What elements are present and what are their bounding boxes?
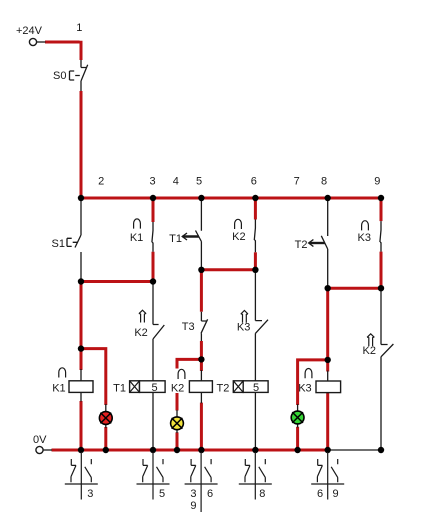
wire 0V bus live part: [52, 449, 328, 452]
junction 0V bus T2 coil: [252, 447, 258, 453]
white mask under K2 coil label (wire passes behind): [171, 369, 188, 394]
energize arrow K2 contact rung3: [139, 310, 146, 322]
wire branch to red lamp H1: [81, 347, 106, 405]
wire top bus node 2-9: [81, 197, 381, 200]
svg-text:6: 6: [207, 488, 213, 500]
junction 0V bus lamp H3: [294, 447, 300, 453]
junction rung5/6 y270 right: [252, 267, 258, 273]
T1 coil pins: [152, 380, 154, 450]
K1 coil pins: [80, 369, 82, 402]
terminal +24V: [29, 38, 36, 45]
svg-text:7: 7: [294, 176, 300, 188]
indicator lamp H1 red: [99, 412, 112, 425]
svg-text:T1: T1: [113, 383, 126, 395]
wire T3 bottom to yellow lamp branch node: [200, 341, 203, 359]
pushbutton S0 (NC, closed): [81, 60, 88, 91]
svg-text:2: 2: [98, 176, 104, 188]
wire bus to K1 contact top: [152, 199, 155, 222]
svg-text:K2: K2: [232, 231, 245, 243]
junction node 5 on top bus: [198, 195, 204, 201]
svg-text:K3: K3: [298, 383, 311, 395]
terminal 0V lead: [43, 449, 52, 451]
wire green lamp bottom to 0V bus: [296, 427, 299, 450]
coil designator arc K3 contact rung9: [362, 221, 369, 231]
terminal +24V lead: [37, 41, 46, 43]
svg-text:K1: K1: [52, 383, 65, 395]
junction node 6 on top bus: [252, 195, 258, 201]
contact mirror T2: [239, 452, 272, 500]
relay contact K2 (NO, closed) rung 6: [254, 220, 255, 253]
wire K3 contact bottom to node y288: [380, 252, 383, 289]
svg-text:T2: T2: [295, 239, 308, 251]
relay contact K3 (NO, closed) rung 9: [380, 221, 381, 252]
svg-text:K3: K3: [358, 232, 371, 244]
terminal 0V: [36, 446, 43, 453]
wire bus to K2 contact top: [254, 199, 257, 220]
junction node 9 on top bus: [378, 195, 384, 201]
contact mirror K3: [311, 452, 344, 500]
wire T1 contact bottom node to T3 contact top: [200, 270, 203, 312]
svg-text:+24V: +24V: [16, 25, 43, 37]
coil designator arc K2 contact rung6: [235, 219, 242, 229]
svg-text:9: 9: [190, 500, 196, 512]
timer contact T1 (NO, open, on-delay) rung 5: [196, 199, 202, 270]
svg-text:S0: S0: [53, 70, 66, 82]
wire branch to yellow lamp H2: [176, 359, 202, 410]
lamp H2 pins: [176, 410, 178, 433]
coil K2: [189, 381, 212, 393]
T2 arrow: [309, 242, 325, 244]
svg-text:6: 6: [251, 176, 257, 188]
energize arrow K2 contact rung9: [367, 334, 374, 346]
junction 0V bus lamp H2: [174, 447, 180, 453]
wire horizontal rung T1 column to K2 contact column at y270: [201, 268, 255, 271]
junction lamp H2 branch: [198, 356, 204, 362]
timer contact T2 (NO, open, on-delay) rung 8: [321, 199, 327, 288]
relay contact K2 (NC, open) rung 9: [381, 288, 393, 450]
contact mirror T1: [137, 452, 170, 500]
svg-text:3: 3: [190, 488, 196, 500]
svg-text:5: 5: [253, 382, 259, 394]
relay contact K3 (NC, open) rung 6: [255, 270, 268, 381]
junction rung5/6 y270 left: [198, 267, 204, 273]
pushbutton S1 (NO, open): [75, 199, 81, 282]
wire horizontal rung S1 column to K1 column at y281: [81, 280, 153, 283]
svg-text:3: 3: [150, 176, 156, 188]
junction 0V bus T1 coil: [150, 447, 156, 453]
svg-text:K2: K2: [171, 383, 184, 395]
svg-text:K3: K3: [237, 322, 250, 334]
coil K1: [69, 381, 93, 393]
wire K2 coil bottom to 0V bus: [200, 403, 203, 450]
svg-text:6: 6: [317, 488, 323, 500]
svg-text:T3: T3: [182, 321, 195, 333]
wire node to K2 coil top: [200, 359, 203, 371]
junction node 3 on top bus: [150, 195, 156, 201]
timer coil T2 body: [243, 381, 268, 393]
K3 coil pins: [327, 371, 329, 394]
junction rung2/3 y281 left: [78, 278, 84, 284]
relay contact K2 (NC, open) rung 3: [153, 282, 164, 381]
timer coil T2 value box with X: [233, 381, 243, 393]
junction lamp H3 branch: [325, 357, 331, 363]
coil designator arc K2 coil: [178, 369, 185, 379]
lamp H3 pins: [297, 404, 299, 428]
svg-text:5: 5: [196, 176, 202, 188]
timer contact T3 (NC, closed) rung 5: [201, 312, 208, 341]
wire bus to K3 contact top: [380, 199, 383, 221]
wire K1 coil bottom to 0V bus: [80, 401, 83, 450]
svg-text:8: 8: [321, 176, 327, 188]
junction rung8/9 y288 right: [378, 285, 384, 291]
junction 0V bus lamp H1: [103, 447, 109, 453]
svg-text:9: 9: [332, 488, 338, 500]
coil K3: [316, 381, 341, 393]
junction lamp H1 branch: [78, 345, 84, 351]
svg-text:S1: S1: [52, 238, 65, 250]
svg-text:T1: T1: [169, 233, 182, 245]
wire red lamp bottom to 0V bus: [104, 427, 107, 450]
wire T2 contact bottom node down to K3 coil branch node: [326, 288, 329, 360]
contact mirror K1: [65, 452, 98, 500]
wire K2 contact bottom to node y270: [254, 252, 257, 269]
wire S1 column down to lamp branch node: [80, 282, 83, 349]
timer coil T1 value box with X: [130, 381, 140, 393]
svg-text:9: 9: [374, 176, 380, 188]
wire horizontal rung T2 column to K3 contact column at y288: [328, 287, 381, 290]
T2 coil pins: [254, 380, 256, 450]
junction node 2 on top bus: [78, 195, 84, 201]
svg-text:5: 5: [151, 382, 157, 394]
timer coil T1 body: [140, 381, 166, 393]
svg-text:T2: T2: [217, 383, 230, 395]
K2 coil pins: [200, 370, 202, 403]
coil designator arc K1 coil: [59, 368, 66, 378]
junction 0V bus K2 coil: [198, 447, 204, 453]
contact mirror K2: [185, 452, 218, 512]
junction node 8 on top bus: [325, 195, 331, 201]
wire K3 coil bottom to 0V bus: [326, 393, 329, 450]
wire node to K1 coil top: [80, 349, 83, 370]
wire node to K3 coil top: [326, 360, 329, 372]
wire S0 bottom to top bus: [80, 91, 83, 199]
lamp H1 pins: [105, 404, 107, 428]
relay contact K1 (NO, closed) rung 3: [152, 222, 153, 252]
svg-text:1: 1: [76, 22, 82, 34]
svg-text:0V: 0V: [33, 434, 47, 446]
svg-text:K1: K1: [130, 232, 143, 244]
svg-text:4: 4: [173, 176, 179, 188]
indicator lamp H3 green: [291, 411, 304, 424]
junction rung2/3 y281 right: [150, 278, 156, 284]
svg-text:K2: K2: [134, 327, 147, 339]
svg-text:8: 8: [259, 488, 265, 500]
coil designator arc K3 coil: [305, 369, 312, 379]
svg-text:5: 5: [159, 488, 165, 500]
S1 actuator: [67, 238, 78, 246]
wire branch to green lamp H3: [296, 360, 328, 405]
junction 0V bus K2 rung9: [378, 447, 384, 453]
T1 arrow: [183, 235, 199, 237]
wire +24V feed to node 1 corner: [45, 41, 81, 60]
junction 0V bus K3 coil: [325, 447, 331, 453]
S0 actuator: [70, 71, 80, 80]
wire yellow lamp bottom to 0V bus: [176, 432, 179, 450]
energize arrow K3 contact rung6: [241, 311, 248, 323]
junction 0V bus K1 coil: [78, 447, 84, 453]
coil designator arc K1 contact: [134, 219, 141, 229]
wire 0V bus dead part (under K2 rung9): [328, 449, 381, 451]
svg-text:3: 3: [87, 488, 93, 500]
wire K1 contact bottom to node at y281: [152, 252, 155, 282]
indicator lamp H2 yellow: [171, 417, 184, 430]
svg-text:K2: K2: [363, 345, 376, 357]
junction rung8/9 y288 left: [325, 285, 331, 291]
